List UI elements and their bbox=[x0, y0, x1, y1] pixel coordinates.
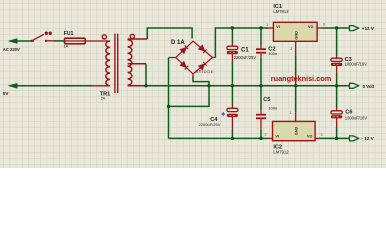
svg-text:VO: VO bbox=[308, 25, 313, 29]
svg-text:C1: C1 bbox=[241, 48, 249, 54]
svg-text:- 12 V: - 12 V bbox=[361, 136, 374, 141]
svg-text:100n: 100n bbox=[268, 106, 277, 111]
svg-text:2: 2 bbox=[265, 132, 267, 136]
svg-text:D 1A: D 1A bbox=[171, 40, 185, 46]
svg-text:1000uF/16V: 1000uF/16V bbox=[345, 115, 368, 120]
svg-text:100n: 100n bbox=[268, 51, 277, 56]
svg-text:2200uF/25V: 2200uF/25V bbox=[234, 55, 257, 60]
svg-text:VO: VO bbox=[307, 135, 312, 139]
svg-text:AC 220V: AC 220V bbox=[3, 47, 20, 52]
svg-text:VI: VI bbox=[275, 135, 278, 139]
svg-text:GND: GND bbox=[294, 127, 298, 136]
svg-text:1: 1 bbox=[266, 23, 268, 27]
svg-text:C5: C5 bbox=[263, 97, 270, 103]
svg-text:+12 V: +12 V bbox=[362, 26, 375, 31]
svg-text:2200uF/25V: 2200uF/25V bbox=[199, 122, 221, 127]
svg-text:GND: GND bbox=[294, 31, 298, 40]
svg-text:3: 3 bbox=[323, 23, 325, 27]
svg-text:2A: 2A bbox=[101, 97, 106, 101]
svg-text:LM7912: LM7912 bbox=[273, 150, 289, 155]
svg-text:3: 3 bbox=[321, 133, 323, 137]
svg-text:BRIDGE: BRIDGE bbox=[195, 69, 214, 74]
svg-text:0 Volt: 0 Volt bbox=[363, 84, 375, 89]
svg-text:1: 1 bbox=[290, 111, 292, 115]
svg-text:VI: VI bbox=[276, 25, 279, 29]
svg-text:2: 2 bbox=[290, 47, 292, 51]
svg-text:0V: 0V bbox=[3, 91, 10, 96]
svg-text:ruangteknisi.com: ruangteknisi.com bbox=[271, 74, 332, 83]
svg-text:1A: 1A bbox=[63, 44, 68, 49]
svg-text:1000uF/16V: 1000uF/16V bbox=[345, 62, 368, 67]
svg-text:FU1: FU1 bbox=[64, 31, 74, 37]
svg-text:LM7812: LM7812 bbox=[273, 9, 289, 14]
